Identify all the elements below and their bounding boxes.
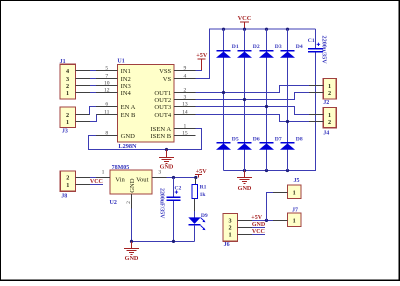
svg-text:+5V: +5V — [196, 168, 208, 175]
wire VCC from J6 — [252, 233, 265, 235]
IC U1 L298N — [117, 59, 174, 151]
wire J3 pin2 to EN A — [90, 107, 97, 115]
svg-text:D4: D4 — [296, 44, 303, 50]
svg-text:D9: D9 — [201, 213, 208, 219]
svg-text:VCC: VCC — [238, 15, 252, 22]
svg-text:8: 8 — [105, 130, 108, 136]
J5 pin — [273, 191, 288, 193]
junction R1 — [194, 176, 197, 179]
diode D6 — [237, 136, 260, 149]
svg-text:11: 11 — [104, 109, 110, 115]
power symbol +5V at U2 output — [195, 168, 207, 178]
wire OUT2 to J2 pin2 — [196, 93, 309, 100]
svg-text:VS: VS — [163, 76, 172, 83]
diode D8 — [280, 136, 303, 149]
wire OUT3 to J4 pin1 — [196, 107, 309, 115]
wire C1 to VCC rail — [315, 29, 317, 49]
connector J2 — [323, 79, 336, 107]
junction C2 gnd — [172, 240, 175, 243]
svg-text:U1: U1 — [117, 59, 124, 65]
J2 pins — [309, 86, 323, 93]
J7 pin — [273, 219, 288, 221]
svg-text:9: 9 — [184, 65, 187, 71]
svg-text:15: 15 — [182, 130, 188, 136]
svg-text:GND: GND — [252, 222, 266, 228]
wire OUT1 to J2 pin1 — [196, 86, 309, 93]
U1 right pin names — [150, 68, 171, 140]
U1 left pin numbers — [104, 65, 110, 136]
svg-text:GND: GND — [238, 185, 252, 192]
wire OUT4 to J4 pin2 — [196, 115, 309, 122]
J8 pins — [75, 178, 89, 185]
capacitor C1 — [308, 36, 328, 65]
svg-text:GND: GND — [160, 164, 174, 171]
wires J1 to U1 — [90, 71, 96, 93]
resistor R1 — [192, 178, 206, 212]
wire J8 pin2 to U2 Vin — [90, 177, 96, 179]
svg-text:D6: D6 — [253, 136, 260, 142]
connector J1 — [60, 59, 76, 99]
svg-text:12: 12 — [104, 87, 110, 93]
U2 pin 2 ground — [126, 194, 132, 208]
ground symbol below diode rail — [237, 171, 252, 193]
connector J4 — [323, 107, 336, 136]
J6 pins — [238, 220, 252, 234]
wire ISEN A to ground net — [89, 129, 202, 150]
svg-text:2: 2 — [229, 225, 232, 232]
svg-text:2200uF/35V: 2200uF/35V — [159, 188, 165, 219]
svg-text:D3: D3 — [275, 44, 282, 50]
svg-text:D2: D2 — [253, 44, 260, 50]
wire VSS to +5V — [196, 70, 202, 72]
svg-text:6: 6 — [105, 101, 108, 107]
svg-text:2: 2 — [126, 201, 132, 204]
svg-text:1: 1 — [229, 232, 232, 239]
svg-text:IN2: IN2 — [121, 76, 131, 83]
connector J7 — [288, 207, 302, 226]
U1 left pin names — [121, 68, 136, 140]
wire bottom ground bus — [132, 240, 195, 242]
diode D7 — [259, 136, 282, 149]
J4 pins — [309, 115, 323, 122]
capacitor C2 — [159, 178, 182, 242]
svg-text:J5: J5 — [294, 178, 300, 184]
diode D2 — [237, 44, 260, 58]
svg-text:2: 2 — [328, 119, 331, 126]
svg-text:J1: J1 — [60, 59, 66, 65]
svg-text:VCC: VCC — [252, 229, 265, 235]
svg-text:78M05: 78M05 — [112, 165, 130, 171]
svg-text:OUT3: OUT3 — [154, 104, 172, 111]
U1 right pins — [174, 71, 196, 136]
svg-text:+5V: +5V — [196, 52, 208, 59]
svg-text:C1: C1 — [308, 38, 315, 44]
svg-text:2: 2 — [66, 175, 69, 182]
svg-text:1: 1 — [66, 182, 69, 189]
svg-text:3: 3 — [184, 94, 187, 100]
svg-text:J6: J6 — [224, 242, 230, 248]
diode D4 — [280, 44, 303, 58]
svg-text:1: 1 — [328, 112, 331, 119]
diode D5 — [216, 136, 239, 149]
svg-text:IN4: IN4 — [121, 90, 132, 97]
svg-text:7: 7 — [105, 73, 108, 79]
junction U2 gnd — [130, 240, 133, 243]
regulator U2 78M05 — [110, 165, 153, 206]
U1 left pins — [96, 71, 118, 136]
junction C2 — [172, 176, 175, 179]
wire diode column 2 — [244, 29, 246, 170]
svg-text:14: 14 — [182, 109, 188, 115]
wire J8 pin1 VCC stub — [90, 184, 103, 186]
diode D3 — [259, 44, 282, 58]
wire GND from J6 — [252, 226, 265, 228]
power symbol VCC — [238, 15, 252, 29]
svg-text:1: 1 — [66, 119, 69, 126]
svg-text:1k: 1k — [200, 192, 207, 198]
svg-text:R1: R1 — [200, 184, 207, 190]
wire VS to rail — [196, 78, 210, 80]
svg-text:3: 3 — [66, 76, 69, 83]
svg-text:D1: D1 — [232, 44, 239, 50]
svg-text:1: 1 — [66, 90, 69, 97]
connector J5 — [288, 178, 302, 198]
U2 pin 1 — [96, 169, 110, 177]
svg-text:ISEN B: ISEN B — [150, 133, 171, 140]
wire U2 Vout to +5V — [167, 177, 196, 179]
junction dots on bottom rail — [243, 169, 289, 172]
svg-text:J2: J2 — [323, 100, 329, 106]
svg-text:2: 2 — [184, 87, 187, 93]
svg-text:OUT1: OUT1 — [154, 90, 171, 97]
svg-text:3: 3 — [158, 169, 161, 175]
svg-text:D8: D8 — [296, 136, 303, 142]
svg-text:J7: J7 — [292, 207, 298, 213]
connector J8 — [60, 171, 75, 200]
junction OUT1 D1 — [222, 91, 225, 94]
diode D1 — [216, 44, 239, 58]
svg-text:1: 1 — [184, 123, 187, 129]
U2 pin 3 — [152, 169, 166, 177]
svg-text:+5V: +5V — [251, 215, 262, 221]
svg-text:OUT2: OUT2 — [154, 97, 171, 104]
svg-text:2200u/35V: 2200u/35V — [321, 36, 328, 65]
svg-text:U2: U2 — [110, 200, 117, 206]
wire +5V from J6 — [252, 219, 273, 221]
svg-text:4: 4 — [184, 73, 187, 79]
junction OUT4 D4 — [286, 120, 289, 123]
svg-text:3: 3 — [229, 218, 232, 225]
svg-text:2: 2 — [66, 112, 69, 119]
svg-text:VCC: VCC — [90, 179, 103, 185]
svg-text:GND: GND — [125, 255, 139, 262]
U1 right pin numbers — [182, 65, 188, 136]
svg-text:GND: GND — [129, 178, 136, 193]
junction OUT3 D3 — [265, 105, 268, 108]
J3 pins — [75, 115, 89, 122]
wire U2 ground column — [131, 209, 133, 242]
wire GND bottom rail — [224, 52, 316, 171]
svg-text:2: 2 — [66, 83, 69, 90]
ground symbol below U2 — [124, 241, 139, 262]
svg-text:D5: D5 — [232, 136, 239, 142]
wire VCC top rail — [210, 29, 316, 78]
wire J3 pin1 to EN B — [90, 115, 97, 122]
svg-text:ISEN A: ISEN A — [150, 126, 171, 133]
svg-text:5: 5 — [105, 65, 108, 71]
connector J6 — [223, 214, 238, 249]
junction ground net — [165, 148, 168, 151]
LED D9 — [188, 211, 208, 241]
svg-text:J4: J4 — [323, 131, 329, 137]
svg-text:C2: C2 — [175, 186, 182, 192]
svg-text:EN A: EN A — [121, 104, 136, 111]
svg-text:IN3: IN3 — [121, 83, 132, 90]
power symbol +5V at VSS — [196, 52, 208, 71]
connector J3 — [60, 107, 76, 134]
junction OUT2 D2 — [243, 98, 246, 101]
svg-text:Vout: Vout — [136, 177, 149, 184]
J1 pins — [75, 71, 89, 93]
ground symbol near U1 — [159, 150, 174, 171]
svg-text:Vin: Vin — [115, 177, 125, 184]
svg-text:10: 10 — [104, 80, 110, 86]
wire diode column 4 — [287, 29, 289, 170]
svg-text:2: 2 — [328, 90, 331, 97]
wire to J5 — [267, 192, 273, 220]
svg-text:J8: J8 — [61, 194, 67, 200]
svg-text:VSS: VSS — [159, 68, 171, 75]
svg-text:GND: GND — [121, 133, 136, 140]
wire diode column 1 — [223, 29, 225, 170]
svg-text:1: 1 — [328, 83, 331, 90]
svg-text:13: 13 — [182, 101, 188, 107]
wire diode column 3 — [266, 29, 268, 170]
svg-text:4: 4 — [66, 68, 69, 75]
junction dots on VCC rail — [222, 28, 289, 31]
svg-text:OUT4: OUT4 — [154, 112, 172, 119]
svg-text:J3: J3 — [62, 128, 68, 134]
svg-text:1: 1 — [102, 169, 105, 175]
svg-text:IN1: IN1 — [121, 68, 131, 75]
svg-text:1: 1 — [293, 190, 296, 197]
svg-text:EN B: EN B — [121, 112, 136, 119]
junction J5 branch — [265, 219, 268, 222]
svg-text:D7: D7 — [275, 136, 282, 142]
svg-text:1: 1 — [293, 218, 296, 225]
